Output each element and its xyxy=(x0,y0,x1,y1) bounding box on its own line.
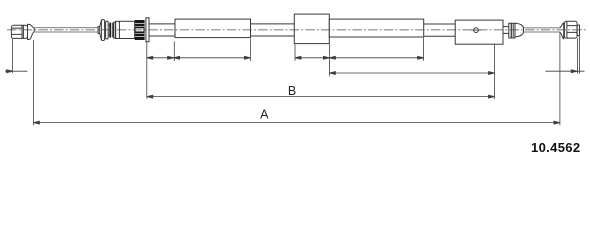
wire: bare inner cable left xyxy=(34,28,98,32)
ext line cable start left (A) xyxy=(32,40,34,125)
boot disc 2 xyxy=(106,21,109,39)
mounting flange plate xyxy=(146,18,149,42)
dim stub right nipple xyxy=(546,70,585,72)
boot disc 1 xyxy=(101,20,104,41)
adjuster cylinder xyxy=(116,21,135,38)
dimension B line xyxy=(147,96,495,98)
ext line sleeve1 right xyxy=(249,39,251,61)
wire: conduit tube segment 3 xyxy=(424,24,456,36)
ext line grommet right xyxy=(328,44,330,76)
dim stub left nipple xyxy=(5,70,28,72)
end bracket block xyxy=(455,20,503,44)
dimension A line xyxy=(33,122,560,124)
ext line sleeve2 right xyxy=(423,38,425,61)
bracket hole circle xyxy=(474,28,479,33)
ext line cable end right (A) xyxy=(559,33,561,126)
svg-text:B: B xyxy=(288,84,296,98)
sleeve S1 xyxy=(175,19,251,37)
boot neck 2 xyxy=(108,25,109,35)
dimension graphics xyxy=(5,33,585,126)
spring washer 2 xyxy=(511,23,515,38)
centerline xyxy=(7,29,586,31)
spring washer 1 xyxy=(509,23,512,38)
left nipple trumpet cone xyxy=(28,24,35,39)
ext line sleeve1 left xyxy=(173,42,175,62)
washer ring dark 2 xyxy=(112,23,114,38)
wire: conduit tube segment 1 xyxy=(149,24,175,36)
right nipple end cap xyxy=(577,25,579,35)
right nipple N2 barrel xyxy=(564,21,577,38)
wire: bare inner cable right xyxy=(524,28,560,32)
ext line nipple groove left xyxy=(12,39,14,73)
dim row flange-sleeve1 xyxy=(147,57,251,59)
boot small collar xyxy=(98,27,100,34)
ext line flange (B left) xyxy=(146,42,148,99)
washer ring dark 1 xyxy=(109,23,111,38)
right nipple trumpet cone xyxy=(559,23,564,39)
grommet block G1 xyxy=(294,14,329,43)
dim row grommet-anchor xyxy=(329,72,494,74)
ext lines nipple end right xyxy=(577,36,579,74)
left nipple N1 barrel xyxy=(11,25,27,38)
svg-text:10.4562: 10.4562 xyxy=(531,140,580,155)
boot flare cone xyxy=(100,20,102,40)
sleeve S2 xyxy=(329,19,423,37)
ext line bracket anchor (B right) xyxy=(494,45,496,100)
ext line grommet left xyxy=(294,44,296,61)
dim row grommet-sleeve2 xyxy=(295,57,424,59)
knurled adjuster ring xyxy=(135,20,145,40)
svg-text:A: A xyxy=(260,108,269,122)
end dome cap xyxy=(515,23,524,37)
boot neck 1 xyxy=(105,24,106,36)
washer white xyxy=(114,22,116,38)
wire: conduit tube segment 2 xyxy=(251,24,295,36)
neck at bracket exit xyxy=(503,27,508,34)
